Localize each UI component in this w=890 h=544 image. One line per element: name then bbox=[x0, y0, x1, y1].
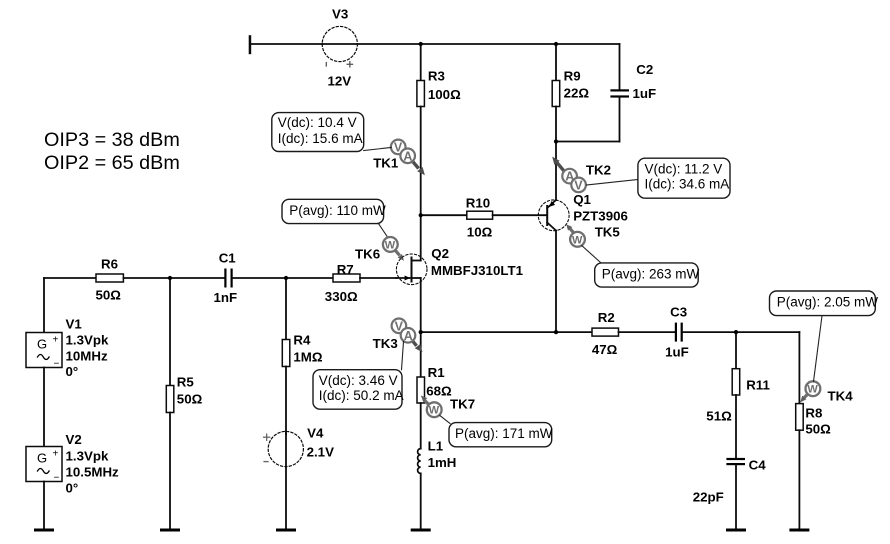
svg-text:MMBFJ310LT1: MMBFJ310LT1 bbox=[431, 263, 524, 278]
callout V(dc) 10.4 V bbox=[272, 113, 391, 152]
wire top rail V3 to C2 bbox=[357, 43, 619, 45]
svg-text:TK4: TK4 bbox=[828, 388, 854, 403]
svg-text:I(dc): 50.2 mA: I(dc): 50.2 mA bbox=[319, 388, 404, 403]
svg-text:−: − bbox=[54, 473, 60, 484]
svg-text:P(avg): 2.05 mW: P(avg): 2.05 mW bbox=[777, 295, 879, 310]
svg-text:G: G bbox=[37, 337, 47, 352]
generator V2 bbox=[26, 432, 119, 496]
svg-text:47Ω: 47Ω bbox=[592, 342, 618, 357]
svg-text:P(avg): 171 mW: P(avg): 171 mW bbox=[455, 426, 553, 441]
svg-text:+: + bbox=[53, 335, 59, 346]
svg-text:TK7: TK7 bbox=[450, 397, 475, 412]
svg-text:V(dc): 11.2 V: V(dc): 11.2 V bbox=[645, 161, 723, 176]
resistor R9 bbox=[552, 44, 589, 142]
wire V2 to ground bbox=[43, 482, 45, 529]
svg-text:TK6: TK6 bbox=[355, 247, 380, 262]
svg-text:R2: R2 bbox=[598, 310, 615, 325]
probe TK5 bbox=[566, 224, 620, 247]
svg-text:PZT3906: PZT3906 bbox=[573, 208, 628, 223]
svg-text:V3: V3 bbox=[332, 7, 348, 22]
node R10 branch bbox=[419, 213, 423, 217]
svg-text:C2: C2 bbox=[636, 62, 653, 77]
probe TK2 bbox=[552, 157, 611, 193]
resistor R1 bbox=[417, 365, 452, 449]
node top R9 bbox=[554, 42, 558, 46]
resistor R5 bbox=[166, 278, 202, 529]
svg-text:10Ω: 10Ω bbox=[467, 224, 493, 239]
resistor R6 bbox=[96, 257, 225, 303]
wire R10 row bbox=[421, 214, 467, 216]
svg-text:10MHz: 10MHz bbox=[66, 348, 108, 363]
probe TK1 bbox=[373, 140, 425, 176]
svg-text:P(avg): 110 mW: P(avg): 110 mW bbox=[289, 203, 386, 218]
node R4 top bbox=[284, 276, 288, 280]
svg-text:V2: V2 bbox=[66, 432, 82, 447]
resistor R10 bbox=[466, 196, 547, 240]
probe TK7 bbox=[421, 395, 475, 417]
svg-text:C1: C1 bbox=[219, 250, 237, 265]
callout P(avg) 263 mW bbox=[582, 246, 700, 288]
svg-text:Q1: Q1 bbox=[573, 192, 591, 207]
svg-text:R9: R9 bbox=[564, 69, 581, 84]
node top R3 bbox=[419, 42, 423, 46]
svg-text:R8: R8 bbox=[805, 406, 822, 421]
callout P(avg) 110 mW bbox=[282, 199, 388, 238]
node R5 top bbox=[168, 276, 172, 280]
svg-text:1mH: 1mH bbox=[428, 455, 457, 470]
svg-text:G: G bbox=[37, 451, 47, 466]
svg-text:R1: R1 bbox=[428, 365, 446, 380]
ground under C4 bbox=[726, 529, 746, 532]
svg-text:68Ω: 68Ω bbox=[426, 384, 452, 399]
svg-text:A: A bbox=[403, 149, 412, 163]
svg-text:OIP3 = 38 dBm: OIP3 = 38 dBm bbox=[44, 129, 180, 151]
wire R9 bottom to C2 bottom bbox=[556, 141, 620, 143]
svg-text:I(dc): 34.6 mA: I(dc): 34.6 mA bbox=[645, 177, 730, 192]
svg-text:50Ω: 50Ω bbox=[177, 392, 203, 407]
svg-text:V1: V1 bbox=[66, 317, 83, 332]
resistor R8 bbox=[796, 404, 831, 529]
svg-text:1uF: 1uF bbox=[633, 86, 657, 101]
svg-text:1MΩ: 1MΩ bbox=[293, 350, 322, 365]
svg-text:1uF: 1uF bbox=[665, 344, 689, 359]
svg-text:R11: R11 bbox=[746, 378, 770, 393]
svg-text:W: W bbox=[385, 239, 396, 251]
wire down to R8 bbox=[798, 332, 800, 404]
svg-text:R10: R10 bbox=[466, 196, 490, 211]
svg-text:TK1: TK1 bbox=[373, 156, 399, 171]
capacitor C1 bbox=[214, 250, 334, 304]
resistor R11 bbox=[706, 332, 770, 458]
resistor R4 bbox=[282, 278, 323, 434]
wire V4 to ground bbox=[285, 467, 287, 529]
svg-text:10.5MHz: 10.5MHz bbox=[66, 465, 120, 480]
svg-text:V(dc): 10.4 V: V(dc): 10.4 V bbox=[278, 115, 357, 130]
svg-text:V4: V4 bbox=[307, 425, 324, 440]
svg-text:W: W bbox=[572, 234, 583, 246]
text OIP3 / OIP2 bbox=[44, 129, 180, 174]
svg-text:+: + bbox=[53, 449, 59, 460]
svg-text:TK5: TK5 bbox=[595, 225, 621, 240]
svg-text:R7: R7 bbox=[337, 262, 354, 277]
inductor L1 bbox=[418, 439, 457, 529]
svg-text:OIP2 = 65 dBm: OIP2 = 65 dBm bbox=[44, 152, 180, 174]
svg-text:V: V bbox=[574, 178, 583, 192]
svg-text:P(avg): 263 mW: P(avg): 263 mW bbox=[602, 266, 700, 281]
svg-text:R4: R4 bbox=[293, 333, 311, 348]
wire Q1 collector rail bbox=[555, 142, 557, 201]
svg-text:50Ω: 50Ω bbox=[96, 288, 122, 303]
node R9/C2 bottom bbox=[554, 139, 558, 143]
svg-text:W: W bbox=[807, 384, 818, 396]
node Q1 collector / output bbox=[554, 330, 558, 334]
node Q2 source / output bbox=[419, 330, 423, 334]
callout P(avg) 171 mW bbox=[440, 415, 553, 446]
ground under L1 bbox=[411, 529, 431, 532]
ground under V2 bbox=[34, 529, 54, 532]
left rail down to V1 bbox=[43, 278, 45, 333]
svg-text:2.1V: 2.1V bbox=[307, 445, 334, 460]
ground under R8 bbox=[789, 529, 809, 532]
ground under V4 bbox=[276, 529, 296, 532]
svg-text:TK3: TK3 bbox=[373, 336, 398, 351]
capacitor C2 bbox=[610, 44, 656, 142]
ground under R5 bbox=[160, 529, 180, 532]
svg-text:51Ω: 51Ω bbox=[706, 409, 732, 424]
svg-text:V(dc): 3.46 V: V(dc): 3.46 V bbox=[319, 373, 398, 388]
transistor Q2 MMBFJ310LT1 bbox=[396, 246, 523, 377]
wire top rail left to V3 bbox=[250, 43, 322, 45]
probe TK4 bbox=[800, 381, 853, 403]
svg-text:TK2: TK2 bbox=[586, 163, 611, 178]
svg-text:R5: R5 bbox=[177, 375, 195, 390]
svg-text:C3: C3 bbox=[670, 305, 687, 320]
svg-text:50Ω: 50Ω bbox=[805, 422, 831, 437]
probe TK3 bbox=[373, 319, 423, 353]
voltage source V4 bbox=[264, 425, 334, 466]
svg-text:A: A bbox=[404, 329, 413, 343]
svg-text:100Ω: 100Ω bbox=[428, 87, 461, 102]
probe TK6 bbox=[355, 237, 404, 262]
capacitor C4 bbox=[693, 458, 767, 529]
resistor R3 bbox=[417, 44, 461, 261]
callout V(dc) 3.46 V bbox=[313, 342, 404, 410]
callout P(avg) 2.05 mW bbox=[770, 291, 879, 382]
resistor R7 bbox=[325, 262, 397, 304]
svg-text:R3: R3 bbox=[428, 68, 445, 83]
svg-text:330Ω: 330Ω bbox=[325, 289, 358, 304]
svg-text:1.3Vpk: 1.3Vpk bbox=[66, 449, 109, 464]
svg-text:W: W bbox=[429, 405, 440, 417]
capacitor C3 bbox=[665, 305, 799, 360]
svg-text:0°: 0° bbox=[66, 481, 79, 496]
transistor Q1 PZT3906 bbox=[538, 192, 628, 332]
svg-text:I(dc): 15.6 mA: I(dc): 15.6 mA bbox=[278, 131, 363, 146]
voltage source V3 bbox=[322, 7, 357, 89]
wire V1 to V2 bbox=[43, 368, 45, 447]
resistor R2 bbox=[592, 310, 675, 357]
node R11 top bbox=[734, 330, 738, 334]
svg-text:1nF: 1nF bbox=[214, 290, 238, 305]
svg-text:22Ω: 22Ω bbox=[564, 86, 590, 101]
generator V1 bbox=[26, 317, 109, 380]
svg-text:22pF: 22pF bbox=[693, 490, 724, 505]
svg-text:0°: 0° bbox=[66, 364, 79, 379]
svg-text:R6: R6 bbox=[101, 257, 118, 272]
svg-text:L1: L1 bbox=[428, 439, 444, 454]
svg-text:12V: 12V bbox=[328, 73, 352, 88]
input terminal bbox=[249, 35, 252, 54]
svg-text:Q2: Q2 bbox=[431, 246, 449, 261]
svg-text:C4: C4 bbox=[749, 458, 767, 473]
svg-text:1.3Vpk: 1.3Vpk bbox=[66, 332, 109, 347]
wire output row bbox=[421, 331, 592, 333]
callout V(dc) 11.2 V bbox=[587, 158, 731, 198]
svg-text:−: − bbox=[54, 359, 60, 370]
wire input row left bbox=[44, 277, 96, 279]
